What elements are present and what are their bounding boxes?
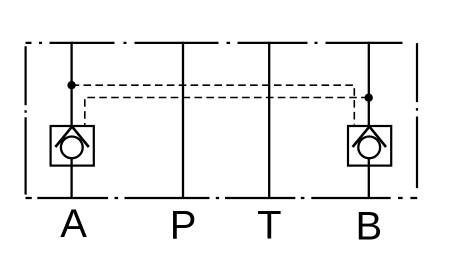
wire port line A upper — [70, 42, 72, 129]
enclosure chain border left — [25, 43, 27, 198]
wire port line T — [268, 42, 270, 198]
wire port line P — [182, 42, 184, 198]
check valve V1 (port A) — [51, 126, 94, 166]
wire port line B lower — [368, 158, 370, 198]
node junction dot on B — [365, 94, 373, 102]
svg-text:B: B — [356, 205, 383, 249]
enclosure chain border top — [26, 42, 408, 44]
wire port line A lower — [70, 158, 72, 198]
enclosure chain border bottom — [26, 197, 418, 199]
wire port line B upper — [368, 42, 370, 129]
svg-text:P: P — [170, 204, 197, 248]
enclosure chain border right — [416, 43, 418, 198]
check valve V2 (port B) — [348, 126, 391, 166]
svg-text:T: T — [257, 204, 281, 248]
svg-text:A: A — [60, 202, 87, 246]
wire pilot line from A to valve V2 (dashed) — [72, 85, 355, 124]
wire pilot line from B to valve V1 (dashed) — [85, 98, 369, 125]
node junction dot on A — [67, 81, 75, 89]
